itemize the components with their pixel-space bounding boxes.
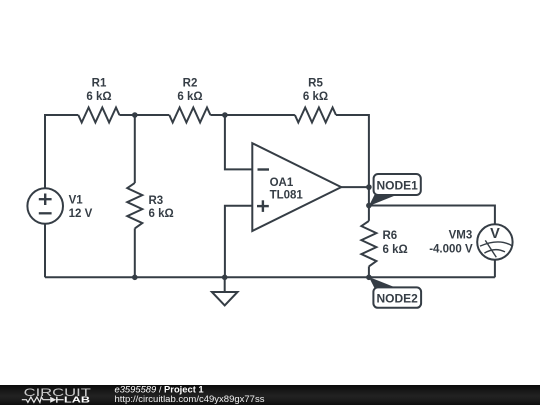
svg-text:6 kΩ: 6 kΩ bbox=[303, 91, 328, 103]
svg-text:TL081: TL081 bbox=[270, 190, 304, 202]
junction dot bottom rail at R6 bbox=[366, 275, 372, 281]
svg-text:V1: V1 bbox=[69, 194, 84, 206]
junction dot top rail at R3 bbox=[132, 112, 138, 118]
svg-text:12 V: 12 V bbox=[69, 208, 93, 220]
wire inverting input branch bbox=[225, 115, 252, 169]
svg-text:-4.000 V: -4.000 V bbox=[429, 244, 473, 256]
svg-text:NODE1: NODE1 bbox=[377, 178, 419, 192]
wire bottom rail bbox=[45, 276, 495, 278]
label OA1 TL081 bbox=[270, 177, 304, 202]
label R5 6 kOhm bbox=[303, 78, 328, 103]
svg-text:R6: R6 bbox=[383, 230, 398, 242]
resistor R3 bbox=[127, 183, 142, 229]
svg-text:R3: R3 bbox=[149, 195, 164, 207]
svg-text:6 kΩ: 6 kΩ bbox=[149, 208, 174, 220]
svg-text:LAB: LAB bbox=[64, 394, 90, 404]
node NODE2 bbox=[369, 277, 421, 308]
voltmeter VM3 bbox=[477, 224, 512, 259]
junction dot top rail at inverting branch bbox=[222, 112, 228, 118]
label R1 6 kOhm bbox=[86, 78, 111, 103]
ground bbox=[212, 277, 238, 305]
svg-text:http://circuitlab.com/c49yx89g: http://circuitlab.com/c49yx89gx77ss bbox=[115, 394, 265, 405]
wire op-amp output bbox=[341, 186, 369, 188]
svg-text:OA1: OA1 bbox=[270, 177, 294, 189]
svg-text:6 kΩ: 6 kΩ bbox=[86, 91, 111, 103]
svg-text:R2: R2 bbox=[183, 78, 198, 90]
svg-text:NODE2: NODE2 bbox=[377, 291, 419, 305]
label V1 12 V bbox=[69, 194, 93, 220]
junction dot bottom rail at R3 bbox=[132, 275, 138, 281]
resistor R6 bbox=[361, 221, 376, 267]
wire non-inverting input branch bbox=[225, 206, 252, 277]
op-amp OA1 bbox=[252, 143, 341, 231]
label R3 6 kOhm bbox=[149, 195, 174, 220]
junction dot voltmeter branch bbox=[366, 203, 372, 209]
wire R3 branch lower bbox=[134, 228, 136, 277]
junction dot op-amp output bbox=[366, 184, 372, 190]
CircuitLab logo bbox=[22, 387, 91, 404]
svg-text:R5: R5 bbox=[308, 78, 323, 90]
svg-text:VM3: VM3 bbox=[449, 230, 473, 242]
label VM3 -4.000 V bbox=[429, 230, 473, 256]
footer bar bbox=[0, 385, 540, 405]
resistor R5 bbox=[295, 108, 336, 123]
junction dot bottom rail at ground bbox=[222, 275, 228, 281]
wire left rail lower bbox=[44, 224, 46, 277]
voltage source V1 bbox=[27, 188, 63, 224]
wire top rail between R1 and R2 bbox=[119, 114, 169, 116]
svg-text:R1: R1 bbox=[92, 78, 107, 90]
svg-text:e3595589 / Project 1: e3595589 / Project 1 bbox=[115, 385, 204, 394]
label R2 6 kOhm bbox=[177, 78, 202, 103]
wire top rail right segment to corner bbox=[336, 115, 369, 221]
svg-text:V: V bbox=[490, 226, 500, 242]
svg-text:6 kΩ: 6 kΩ bbox=[177, 91, 202, 103]
wire R3 branch upper bbox=[134, 115, 136, 183]
wire top rail left segment bbox=[45, 115, 78, 188]
resistor R1 bbox=[78, 108, 119, 123]
resistor R2 bbox=[169, 108, 210, 123]
wire right rail lower bbox=[368, 266, 370, 277]
node NODE1 bbox=[369, 174, 421, 206]
wire voltmeter branch top bbox=[369, 206, 495, 225]
wire top rail between R2 and R5 bbox=[210, 114, 295, 116]
svg-text:6 kΩ: 6 kΩ bbox=[383, 244, 408, 256]
label R6 6 kOhm bbox=[383, 230, 408, 256]
wire voltmeter branch bottom bbox=[494, 260, 496, 278]
